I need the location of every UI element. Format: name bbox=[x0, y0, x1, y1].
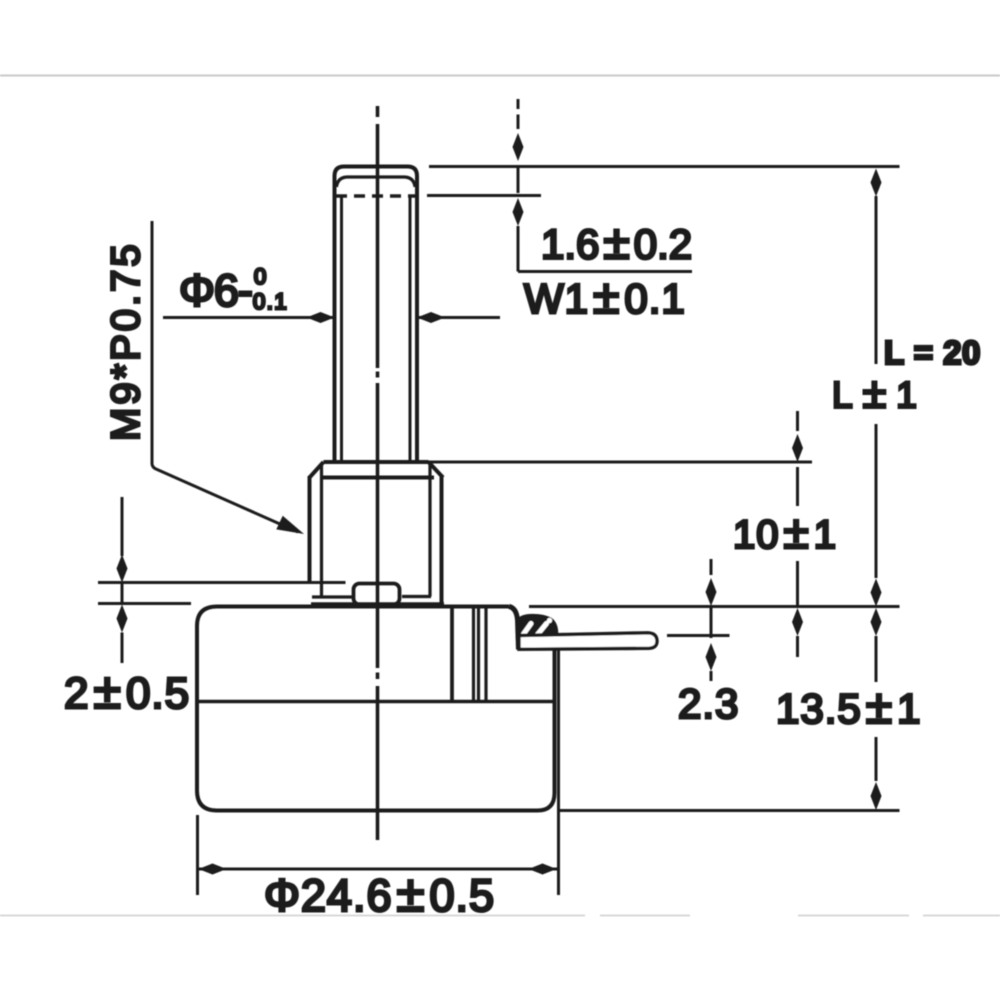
bushing thread line left bbox=[320, 463, 323, 597]
extension line body bottom right bbox=[558, 809, 900, 812]
dimension L±1 bbox=[776, 169, 921, 811]
bushing thread line right bbox=[428, 463, 431, 597]
photo frame top faint line bbox=[0, 75, 1000, 77]
extension line shaft top bbox=[429, 165, 900, 168]
washer top line bbox=[98, 581, 346, 584]
shaft outline bbox=[335, 167, 418, 462]
leader M9*P0.75 bbox=[104, 221, 304, 534]
shaft flat edge left bbox=[340, 197, 343, 460]
extension line terminal down bbox=[557, 650, 560, 896]
svg-text:2.3: 2.3 bbox=[678, 680, 739, 727]
shaft flat edge right bbox=[409, 197, 412, 460]
svg-text:0.1: 0.1 bbox=[253, 289, 288, 314]
terminal lug bbox=[519, 633, 657, 650]
body step line 3 bbox=[477, 607, 480, 702]
svg-text:Φ6-: Φ6- bbox=[179, 265, 252, 316]
body step line 1 bbox=[450, 607, 454, 702]
bushing outline bbox=[310, 462, 444, 603]
body shoulder curve bbox=[509, 607, 519, 650]
body outline bbox=[197, 607, 555, 811]
washer inner line right bbox=[402, 595, 431, 598]
svg-text:10±1: 10±1 bbox=[733, 506, 837, 558]
body step line 4 bbox=[484, 607, 487, 702]
svg-text:L = 20: L = 20 bbox=[884, 334, 981, 371]
extension line right of terminal bbox=[667, 634, 730, 637]
extension line shaft flat bbox=[427, 194, 541, 197]
svg-text:13.5±1: 13.5±1 bbox=[776, 681, 921, 734]
body step line 2 bbox=[472, 607, 475, 702]
dimension 10±1 bbox=[733, 411, 837, 657]
washer bottom extension left bbox=[98, 602, 191, 605]
washer bottom line bbox=[311, 602, 444, 606]
dimension Φ24.6±0.5 bbox=[198, 815, 558, 922]
anti-rotation lug bbox=[354, 584, 400, 605]
shaft chamfer line bbox=[337, 177, 416, 187]
photo frame bottom faint line bbox=[0, 915, 1000, 917]
body mid line bbox=[197, 700, 554, 704]
dimension 2±0.5 bbox=[64, 497, 190, 719]
svg-text:2±0.5: 2±0.5 bbox=[64, 663, 190, 719]
svg-text:M9*P0.75: M9*P0.75 bbox=[104, 241, 148, 441]
shaft flat dashed line bbox=[336, 194, 416, 198]
svg-text:Φ24.6±0.5: Φ24.6±0.5 bbox=[264, 865, 495, 922]
svg-text:L±1: L±1 bbox=[832, 370, 917, 418]
svg-text:0: 0 bbox=[254, 264, 266, 289]
dimension Φ6 bbox=[163, 264, 500, 323]
washer inner line left bbox=[312, 595, 352, 598]
rivet boss bbox=[517, 615, 558, 638]
extension line body top right bbox=[529, 605, 900, 608]
extension line bushing top right bbox=[428, 461, 812, 464]
svg-text:W1±0.1: W1±0.1 bbox=[524, 271, 686, 324]
dimension 1.6±0.2 bbox=[513, 99, 693, 272]
center line bbox=[376, 106, 380, 840]
dimension 2.3 bbox=[678, 559, 739, 727]
svg-text:1.6±0.2: 1.6±0.2 bbox=[541, 217, 692, 270]
